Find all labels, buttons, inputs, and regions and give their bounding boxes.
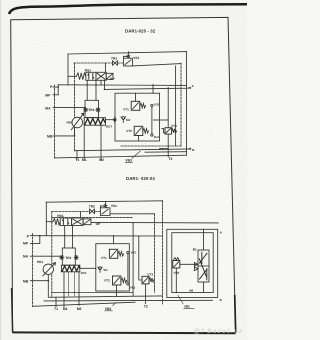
wire VT2 down <box>116 285 118 291</box>
wire RS1 pilot up <box>80 212 82 219</box>
wire RS1 down-left <box>64 226 66 249</box>
main bottom line <box>55 155 187 158</box>
ports edge dashed <box>32 234 34 307</box>
relief VT1 arrow <box>133 103 139 109</box>
wire VT3 down to T2 <box>145 284 147 304</box>
strainer star left <box>84 108 88 112</box>
valve group box VB3 <box>115 93 160 141</box>
enclosure right edge <box>186 52 188 156</box>
manifold inner box <box>172 233 213 293</box>
relief VT1 arrow <box>111 251 117 257</box>
valve RS1 solenoid <box>106 73 113 79</box>
pump H01 circle <box>72 117 83 128</box>
tank return line <box>75 149 191 151</box>
left scan edge faint line <box>0 0 2 340</box>
valve RS1 box1 arrows <box>88 74 94 80</box>
valve VT3 spring <box>172 129 177 133</box>
node port B <box>189 148 191 150</box>
node A branch <box>167 87 169 89</box>
lower drain line <box>145 151 187 154</box>
wire VT2 down <box>138 136 140 142</box>
ports edge dashed <box>54 85 56 158</box>
wire VT1 up <box>135 93 137 101</box>
node ring VL2 <box>127 283 129 285</box>
wire group drain <box>160 148 169 150</box>
wire T1 stub <box>55 297 57 306</box>
throttle TR2 bowtie <box>113 61 118 65</box>
wire VT3 supply riser <box>139 236 142 280</box>
relief VT1 body <box>131 101 140 110</box>
strainer star left <box>60 255 64 259</box>
wire RS1 output to port A <box>91 221 218 224</box>
heater OV1 box <box>61 265 79 272</box>
paper sheet fill <box>11 17 236 332</box>
wire group drain upper <box>154 119 169 121</box>
wire MB <box>30 280 48 282</box>
block dashed mid line <box>52 217 133 219</box>
wire right riser <box>175 66 177 146</box>
page right edge lower thick <box>235 295 236 333</box>
wire P main line <box>40 235 163 237</box>
node MB junction <box>74 135 76 137</box>
block boundary dashed right <box>180 63 182 146</box>
check VU ball <box>99 267 102 270</box>
heater zigzag <box>85 119 105 125</box>
wire group supply up <box>152 85 154 93</box>
valve RS1 box1 arrows <box>63 219 69 224</box>
wire VT5 down <box>175 268 177 293</box>
valve group box VB3 <box>96 244 130 291</box>
valve RS1 box2 X <box>97 73 105 79</box>
wire A branch down to VT3 <box>167 88 169 128</box>
valve RS1 box2 X <box>73 219 82 224</box>
page border frame <box>11 17 236 332</box>
pump H01 arrow <box>71 113 84 130</box>
relief VT1 spring <box>140 103 146 108</box>
node port A <box>189 87 191 89</box>
relief VT1 body <box>109 249 117 258</box>
wire RS1 output to port A <box>105 88 190 89</box>
node P crossing mid <box>95 84 97 86</box>
wire group supply up <box>113 236 115 244</box>
valve VS1 arrow <box>102 209 108 214</box>
check KU ball <box>122 117 125 120</box>
wire VT2 drain stub <box>116 291 118 296</box>
VS1 outlet line <box>133 64 182 66</box>
page bottom edge thick <box>12 331 235 334</box>
valve VS1 bracket spring <box>100 205 106 208</box>
valve VT5 spring top <box>174 258 179 260</box>
wire OV1 out <box>106 119 116 121</box>
valve RS1 box2 <box>96 72 106 80</box>
enclosure top line <box>46 201 162 202</box>
valve VT3 arrow <box>166 128 171 133</box>
main bottom line <box>33 302 135 306</box>
VB2 underline and leader <box>178 295 195 309</box>
valve RS1 spring <box>76 73 85 80</box>
B1 stack midline <box>198 265 209 267</box>
heater OV1 box <box>84 118 105 126</box>
valve VT5 body <box>173 261 180 269</box>
B1 pilot triangles <box>194 263 198 271</box>
node ring VJ3 <box>127 251 129 253</box>
check KU seat <box>121 117 126 122</box>
wire MA <box>53 106 86 108</box>
block boundary dashed right <box>154 214 156 293</box>
check at block edge <box>114 117 116 124</box>
valve VT3 arrow <box>143 278 148 283</box>
enclosure left upper edge <box>67 54 69 85</box>
cylinder valve B1 stack <box>198 250 209 282</box>
wire MB <box>53 135 75 137</box>
VB3 underline and leader <box>125 151 140 162</box>
relief VT2 spring <box>121 278 127 283</box>
wire nodes riser <box>151 107 153 134</box>
wire OV1 out <box>80 267 96 269</box>
wire RS1 left <box>46 221 53 223</box>
relief VT2 arrow <box>136 128 142 135</box>
heater zigzag <box>62 266 79 271</box>
wire pump down <box>74 128 76 136</box>
block bottom line <box>52 292 133 294</box>
wire M2 stub <box>78 272 80 305</box>
valve RS1 solenoid <box>83 219 91 225</box>
relief VT2 arrow <box>114 277 120 283</box>
scan top edge <box>9 4 247 14</box>
valve VS1 bracket spring <box>124 55 130 58</box>
wire P main line <box>58 84 186 87</box>
node P crossing1 <box>64 235 66 237</box>
valve RS1 box2 <box>72 218 83 226</box>
wire RS1 pilot up <box>105 63 107 72</box>
wire VT3 down to T2 <box>167 134 169 157</box>
block dashed left <box>51 212 53 297</box>
wire VS1 up <box>105 201 107 204</box>
node MB junction <box>47 280 49 282</box>
wire drain left pair <box>69 272 75 296</box>
enclosure left upper edge <box>45 202 47 236</box>
wire pump down <box>47 275 49 297</box>
wire RS1 down-left <box>86 80 88 100</box>
wire RS1 down-right <box>101 80 105 89</box>
long return line <box>44 299 213 302</box>
node ring VL2 <box>151 134 153 136</box>
wire mid riser <box>132 223 134 296</box>
wire MP <box>53 94 58 96</box>
check VU seat <box>98 267 102 272</box>
valve VT5 arrow <box>174 262 179 267</box>
block dashed top <box>52 211 101 213</box>
scan grain overlay <box>0 0 247 340</box>
relief VT1 spring <box>118 252 124 257</box>
valve RS1 spring <box>53 218 60 225</box>
valve VS1 arrow <box>125 60 131 65</box>
wire M1 stub <box>83 125 85 159</box>
block boundary dashed left <box>74 63 76 151</box>
wire B1 bottom down <box>203 282 205 293</box>
wire VS1 up <box>128 52 130 55</box>
wire MA <box>30 255 62 257</box>
node P corner <box>57 86 59 88</box>
wire MP <box>30 242 40 244</box>
node ring VJ3 <box>151 104 153 106</box>
enclosure right edge dashed <box>162 201 164 304</box>
wire RS1 left <box>68 75 76 77</box>
pump H01 arrow <box>43 263 56 276</box>
wire B1 supply down <box>203 229 205 250</box>
scan background <box>0 0 247 340</box>
strainer star right <box>74 255 78 259</box>
tank return line <box>48 296 162 297</box>
wire nodes riser <box>127 254 129 283</box>
node group supply <box>152 84 154 86</box>
page left edge lower thick <box>12 288 13 332</box>
wire P stub <box>53 85 58 95</box>
pump H01 circle <box>43 264 53 274</box>
valve VT3 body <box>165 128 172 134</box>
valve RS1 box1 <box>60 218 71 226</box>
block boundary dashed top <box>74 62 123 64</box>
VS1 outlet line <box>110 213 155 215</box>
valve VT3 bracket <box>162 129 165 133</box>
valve RS1 box1 <box>86 72 96 80</box>
wire M1 stub <box>63 272 65 307</box>
valve VS1 body <box>124 58 133 66</box>
wire T1 stub <box>76 151 78 160</box>
valve VT3 spring <box>149 278 154 282</box>
wire M2 stub <box>100 125 102 159</box>
relief VT2 spring <box>143 129 149 134</box>
relief VT2 body <box>134 126 143 135</box>
reservoir TR1 box <box>62 248 75 265</box>
valve VS1 body <box>100 208 110 216</box>
relief VT2 body <box>113 276 121 285</box>
enclosure top line <box>68 52 187 54</box>
node out-line junction <box>104 89 106 91</box>
VB3 underline and leader <box>104 302 116 311</box>
manifold outer box VB2 <box>167 229 218 297</box>
strainer star right <box>96 108 100 112</box>
node P crossing2 <box>113 235 115 237</box>
node P crossing left <box>86 84 88 86</box>
wire RS1 down-mid <box>72 226 74 249</box>
valve VT3 body <box>142 276 149 284</box>
B1 stack arrows <box>199 252 207 280</box>
wire RS1 down-mid <box>95 80 97 100</box>
throttle TR2 bowtie <box>90 209 95 213</box>
wire VT5 out <box>180 263 198 265</box>
node P crossing1b <box>72 235 74 237</box>
reservoir TR1 box <box>85 100 99 117</box>
wire P stub <box>30 236 40 244</box>
node P corner <box>39 235 41 237</box>
block boundary dashed bottom <box>121 145 181 147</box>
